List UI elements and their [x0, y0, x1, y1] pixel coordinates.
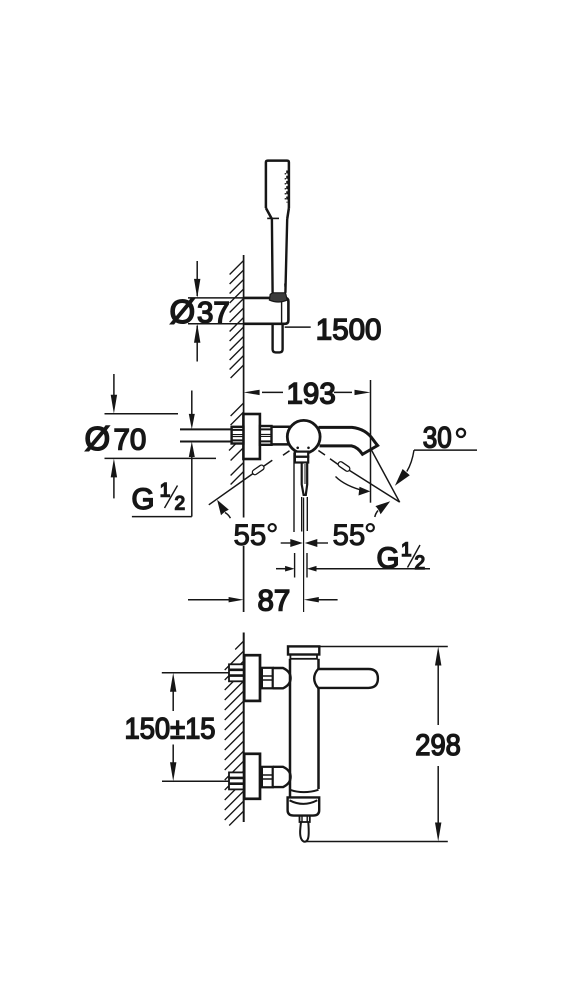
front-view wall hatching [229, 403, 244, 485]
faucet body front [272, 427, 292, 445]
shower cone cup in holder [269, 293, 287, 302]
cartridge ball [287, 420, 320, 453]
escutcheon rosette front [243, 414, 260, 459]
hose nipple [300, 816, 310, 822]
lever arm capsule [314, 669, 378, 688]
svg-text:37: 37 [197, 297, 230, 330]
top-view wall hatching [230, 261, 244, 379]
label G1/2 left with arrows [132, 391, 195, 517]
s-union cover front [260, 426, 272, 445]
spout [319, 427, 378, 454]
label 30 deg [395, 421, 477, 486]
union nuts side [262, 668, 273, 788]
dimension 298 [305, 647, 461, 842]
svg-text:30: 30 [423, 421, 452, 454]
dimension Ø37 [170, 261, 244, 362]
faucet tube side [290, 659, 319, 798]
dimension 87 [188, 585, 338, 618]
svg-text:87: 87 [258, 585, 291, 618]
svg-text:55: 55 [234, 519, 267, 552]
shower hose stub [273, 324, 283, 353]
30 degree line [371, 449, 400, 503]
outlet block [288, 790, 320, 816]
lever stick [302, 463, 308, 495]
label 55 deg left [217, 500, 276, 552]
label 55 deg right [333, 477, 391, 553]
rosettes side [244, 655, 260, 799]
svg-text:2: 2 [415, 553, 426, 574]
outlet extension lines [294, 453, 307, 613]
svg-text:193: 193 [287, 378, 336, 411]
svg-text:G: G [132, 483, 155, 516]
svg-text:G: G [377, 542, 400, 575]
lever collar [295, 452, 308, 463]
wall holder bracket [244, 298, 289, 324]
dimension 150±15 [125, 673, 230, 782]
svg-text:Ø: Ø [170, 293, 196, 330]
svg-text:55: 55 [333, 519, 366, 552]
side wall hatching [225, 641, 244, 826]
svg-text:1: 1 [401, 540, 412, 561]
hex nut front [232, 427, 244, 444]
supply pipe lines [180, 429, 232, 441]
lever swing line left 55 [209, 451, 290, 505]
union bells side [273, 668, 291, 787]
svg-text:150±15: 150±15 [125, 713, 216, 746]
dimension Ø70 [85, 374, 217, 498]
side wall line [243, 633, 245, 823]
lever swing line right 55 [318, 451, 399, 502]
wall line (top view + front view extension line) [243, 255, 245, 612]
label 1500 with leader [285, 313, 382, 346]
top disc [288, 646, 319, 658]
hand shower spray dots [285, 171, 287, 203]
svg-text:1500: 1500 [316, 313, 382, 346]
svg-text:1: 1 [160, 481, 171, 502]
dimension G1/2 bottom [276, 540, 430, 575]
dimension 193 [244, 378, 371, 503]
svg-text:2: 2 [175, 494, 186, 515]
hand shower handle [272, 219, 287, 293]
hand shower head [266, 161, 289, 219]
in-wall threads [229, 664, 244, 789]
svg-text:298: 298 [415, 729, 461, 762]
hose droplet [300, 822, 309, 842]
center arrows 55 row [281, 539, 328, 547]
svg-text:70: 70 [114, 424, 147, 457]
svg-text:Ø: Ø [85, 420, 111, 457]
